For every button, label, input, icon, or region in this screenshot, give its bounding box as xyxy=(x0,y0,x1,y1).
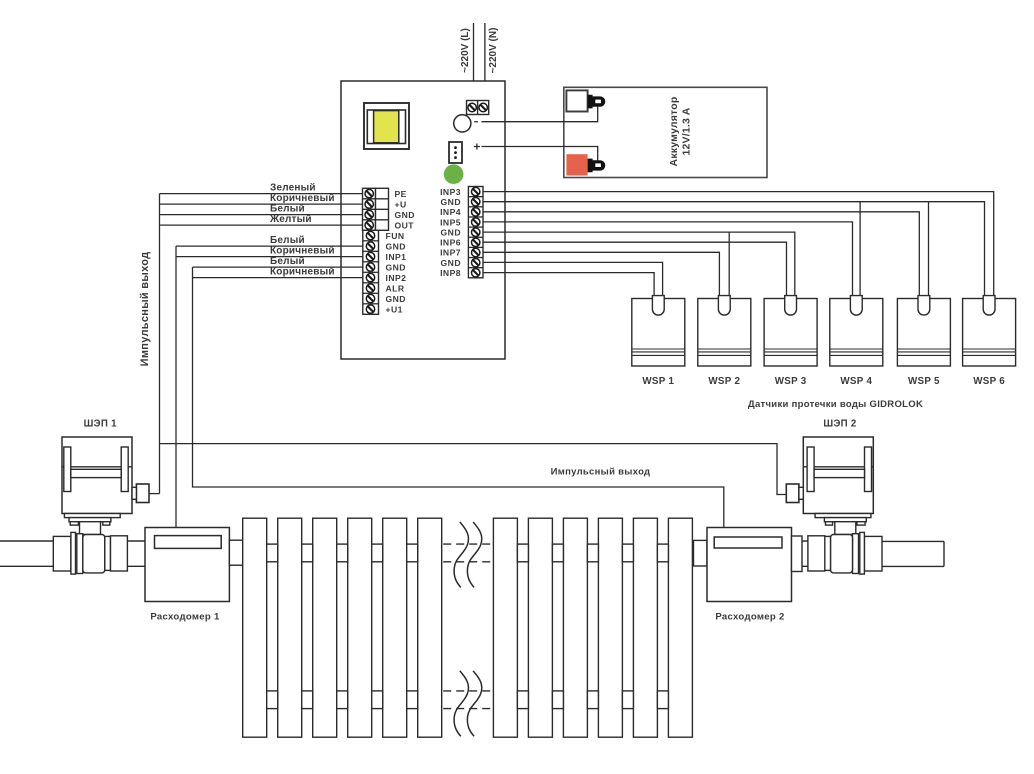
sensor WSP 5 xyxy=(897,296,950,366)
svg-text:Белый: Белый xyxy=(270,204,305,215)
svg-text:Коричневый: Коричневый xyxy=(270,246,335,257)
svg-text:GND: GND xyxy=(386,294,406,304)
radiator nipple top xyxy=(302,544,313,562)
svg-text:WSP 5: WSP 5 xyxy=(908,376,940,387)
flow meter 2 outlet port xyxy=(792,536,803,572)
svg-text:GND: GND xyxy=(441,258,461,268)
terminal GND xyxy=(441,258,480,268)
radiator nipple top xyxy=(657,544,668,562)
flow meter 2 xyxy=(707,528,792,602)
svg-text:+U1: +U1 xyxy=(386,304,403,314)
terminal +U1 xyxy=(366,304,403,314)
terminal FUN xyxy=(366,231,404,241)
radiator nipple top xyxy=(587,544,598,562)
svg-text:GND: GND xyxy=(395,210,415,220)
radiator nipple bottom xyxy=(657,691,668,709)
transformer T1 xyxy=(364,103,409,149)
terminal INP2 xyxy=(366,273,406,283)
radiator rib 11 xyxy=(633,518,657,737)
svg-text:INP2: INP2 xyxy=(386,273,407,283)
svg-text:ALR: ALR xyxy=(386,283,405,293)
wire INP8 to WSP1 xyxy=(483,273,654,296)
battery 12V xyxy=(564,87,767,177)
pipe left xyxy=(0,541,53,566)
flow meter 1 outlet port xyxy=(229,540,242,565)
svg-text:+U: +U xyxy=(395,199,407,209)
sensor WSP 4 xyxy=(830,296,883,366)
svg-text:Коричневый: Коричневый xyxy=(270,267,335,278)
radiator rib 2 xyxy=(278,518,302,737)
terminal PE xyxy=(365,189,407,199)
label ~220V (L) xyxy=(460,28,471,73)
svg-text:INP7: INP7 xyxy=(440,248,461,258)
flow meter 1 cable vertical xyxy=(175,246,177,527)
radiator nipple bottom xyxy=(337,691,348,709)
valve ShEP 1 xyxy=(53,437,149,574)
minus mark xyxy=(474,121,478,123)
pipe right xyxy=(882,541,944,566)
svg-text:Импульсный выход: Импульсный выход xyxy=(551,466,651,477)
svg-text:Импульсный выход: Импульсный выход xyxy=(139,252,151,367)
wire plus to battery xyxy=(482,147,598,161)
radiator nipple top xyxy=(372,544,383,562)
wire INP7 to WSP2 xyxy=(483,252,719,295)
svg-text:~220V (L): ~220V (L) xyxy=(460,28,471,73)
battery terminal plus (red) xyxy=(566,154,605,175)
plus mark xyxy=(474,144,480,150)
svg-text:Желтый: Желтый xyxy=(269,214,312,225)
radiator rib 4 xyxy=(348,518,372,737)
svg-text:Расходомер 2: Расходомер 2 xyxy=(715,612,784,623)
terminal GND xyxy=(366,294,406,304)
sensor WSP 6 xyxy=(963,296,1016,366)
radiator nipple top xyxy=(267,544,278,562)
svg-text:INP1: INP1 xyxy=(386,252,407,262)
radiator nipple top xyxy=(337,544,348,562)
terminal GND xyxy=(365,210,415,220)
svg-text:Датчики протечки воды GIDROLOK: Датчики протечки воды GIDROLOK xyxy=(748,399,923,410)
wire INP5 to WSP4 xyxy=(483,222,853,296)
sensor WSP 3 xyxy=(764,296,817,366)
LED green xyxy=(444,164,464,184)
radiator nipple bottom xyxy=(267,691,278,709)
svg-text:Белый: Белый xyxy=(270,235,305,246)
radiator rib 8 xyxy=(528,518,552,737)
radiator nipple bottom xyxy=(587,691,598,709)
svg-text:Зеленый: Зеленый xyxy=(270,183,316,194)
radiator rib 12 xyxy=(668,518,692,737)
terminal INP7 xyxy=(440,248,480,258)
svg-text:GND: GND xyxy=(441,227,461,237)
battery label xyxy=(668,97,693,167)
valve ShEP 2 xyxy=(786,437,882,574)
radiator nipple bottom xyxy=(622,691,633,709)
wire GND to WSP2/3 xyxy=(483,232,795,296)
wire OUT yellow xyxy=(160,224,363,226)
valve bus vertical xyxy=(159,194,161,494)
svg-text:WSP 2: WSP 2 xyxy=(708,376,740,387)
radiator nipple bottom xyxy=(517,691,528,709)
flow meter 2 inlet port xyxy=(694,540,708,566)
terminal strip X1 (PE..+U1) xyxy=(363,188,389,314)
wire INP4 to WSP5 xyxy=(483,212,919,296)
svg-text:ШЭП 2: ШЭП 2 xyxy=(823,418,856,429)
svg-text:INP3: INP3 xyxy=(440,187,461,197)
radiator break dashed lines bottom xyxy=(443,691,493,709)
wire GND white xyxy=(160,214,363,216)
svg-text:ШЭП 1: ШЭП 1 xyxy=(84,418,117,429)
radiator rib 7 xyxy=(493,518,517,737)
svg-text:Расходомер 1: Расходомер 1 xyxy=(150,612,220,623)
wire PE green xyxy=(160,193,363,195)
buzzer xyxy=(454,115,471,132)
battery terminal minus (white) xyxy=(566,90,605,111)
terminal INP8 xyxy=(440,268,480,278)
wire GND white (flow meter 1) xyxy=(176,245,363,247)
svg-text:GND: GND xyxy=(386,262,406,272)
svg-text:Коричневый: Коричневый xyxy=(270,193,335,204)
radiator break dashed lines top xyxy=(443,544,493,562)
terminal GND xyxy=(366,262,406,272)
svg-text:Белый: Белый xyxy=(270,256,305,267)
label ~220V (N) xyxy=(488,28,499,74)
wire branch to valve 2 xyxy=(160,444,787,495)
radiator nipple top xyxy=(517,544,528,562)
wire minus to battery xyxy=(482,106,598,122)
terminal GND xyxy=(441,227,480,237)
connector J1 3-pin xyxy=(449,142,462,163)
svg-text:OUT: OUT xyxy=(395,220,415,230)
sensor WSP 1 xyxy=(632,296,685,366)
wire INP1 brown (flow meter 1) xyxy=(176,256,363,258)
wire GND to WSP1 xyxy=(483,262,663,295)
terminal GND xyxy=(441,197,480,207)
wire +U brown xyxy=(160,203,363,205)
wire ~220V N xyxy=(484,23,486,101)
radiator rib 3 xyxy=(313,518,337,737)
svg-text:INP4: INP4 xyxy=(440,207,461,217)
terminal INP4 xyxy=(440,207,480,217)
radiator nipple bottom xyxy=(407,691,418,709)
svg-text:WSP 1: WSP 1 xyxy=(642,376,674,387)
svg-text:INP8: INP8 xyxy=(440,268,461,278)
radiator rib 9 xyxy=(563,518,587,737)
svg-text:WSP 3: WSP 3 xyxy=(775,376,807,387)
svg-text:~220V (N): ~220V (N) xyxy=(488,28,499,74)
radiator break squiggle top xyxy=(454,522,482,587)
terminal +U xyxy=(365,199,407,209)
radiator nipple top xyxy=(622,544,633,562)
radiator rib 1 xyxy=(243,518,267,737)
svg-text:INP6: INP6 xyxy=(440,238,461,248)
radiator nipple top xyxy=(407,544,418,562)
terminal OUT xyxy=(365,220,414,230)
svg-text:FUN: FUN xyxy=(386,231,405,241)
sensor WSP 2 xyxy=(698,296,751,366)
svg-text:GND: GND xyxy=(386,241,406,251)
wire ~220V L xyxy=(473,23,475,101)
radiator rib 6 xyxy=(418,518,442,737)
terminal block X220 (mains) xyxy=(467,101,489,115)
radiator nipple bottom xyxy=(302,691,313,709)
svg-text:PE: PE xyxy=(395,189,407,199)
terminal ALR xyxy=(366,283,405,293)
svg-text:Аккумулятор: Аккумулятор xyxy=(668,97,680,167)
wire GND to WSP4/5/6 xyxy=(483,202,985,296)
terminal GND xyxy=(366,241,406,251)
svg-text:INP5: INP5 xyxy=(440,217,461,227)
terminal INP1 xyxy=(366,252,406,262)
radiator nipple top xyxy=(552,544,563,562)
radiator break squiggle bottom xyxy=(454,671,482,736)
radiator nipple bottom xyxy=(372,691,383,709)
wire INP6 to WSP3 xyxy=(483,242,787,295)
terminal INP5 xyxy=(440,217,480,227)
svg-text:12V/1.3 A: 12V/1.3 A xyxy=(680,107,692,155)
svg-text:WSP 6: WSP 6 xyxy=(973,376,1005,387)
svg-text:WSP 4: WSP 4 xyxy=(840,376,872,387)
svg-text:GND: GND xyxy=(441,197,461,207)
label impulse output vertical xyxy=(139,252,151,367)
controller box xyxy=(341,81,505,359)
wire INP2 brown (flow meter 2) xyxy=(193,277,363,279)
radiator rib 10 xyxy=(598,518,622,737)
wire GND white (flow meter 2) xyxy=(193,266,363,268)
wire to valve 1 connector xyxy=(149,493,160,495)
terminal strip X2 (INP3..INP8) xyxy=(468,187,483,278)
terminal INP3 xyxy=(440,187,480,197)
flow meter 2 cable run xyxy=(193,267,724,527)
radiator rib 5 xyxy=(383,518,407,737)
radiator nipple bottom xyxy=(552,691,563,709)
terminal INP6 xyxy=(440,238,480,248)
flow meter 1 xyxy=(145,528,229,602)
wire INP3 to WSP6 xyxy=(483,192,994,296)
